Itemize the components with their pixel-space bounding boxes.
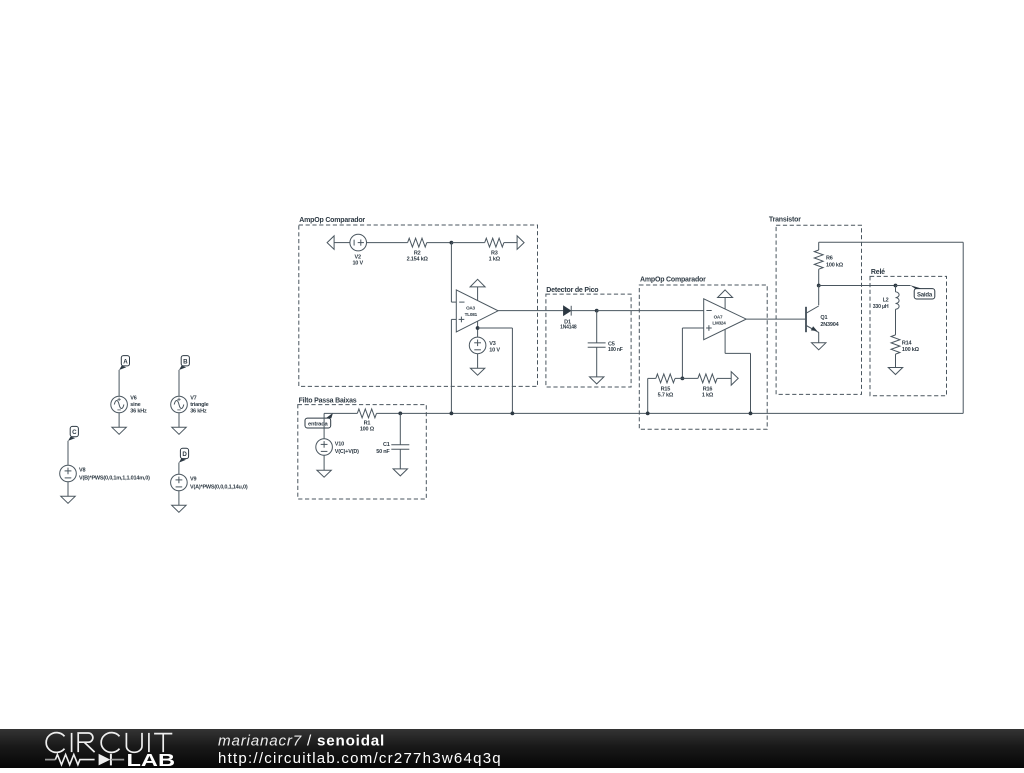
wire [477, 321, 479, 337]
wire right rail [962, 242, 964, 413]
svg-text:marianacr7 / senoidal: marianacr7 / senoidal [218, 733, 385, 750]
output flag (right arrow) [731, 372, 738, 386]
wire [477, 354, 479, 369]
node A flag [121, 356, 129, 366]
node junction [450, 412, 454, 416]
svg-text:1 kΩ: 1 kΩ [489, 257, 501, 263]
svg-text:sine: sine [130, 402, 140, 408]
wire [746, 318, 806, 320]
svg-text:100 nF: 100 nF [608, 347, 623, 353]
svg-text:R6: R6 [826, 255, 833, 261]
svg-text:V9: V9 [190, 477, 196, 483]
wire [178, 463, 180, 475]
wire [498, 310, 563, 312]
svg-text:10 V: 10 V [352, 261, 363, 267]
wire [895, 354, 897, 367]
node junction [681, 377, 685, 381]
svg-text:triangle: triangle [190, 402, 208, 408]
wire [725, 352, 750, 354]
capacitor C1 [391, 444, 409, 446]
node B flag [181, 356, 189, 366]
svg-text:V2: V2 [355, 254, 361, 260]
svg-text:R16: R16 [703, 386, 713, 392]
ground [393, 469, 407, 476]
net flag entrada [326, 413, 333, 419]
ground [317, 470, 331, 477]
voltage source V2 [350, 234, 367, 251]
node junction [398, 412, 402, 416]
ground [888, 368, 902, 375]
svg-text:OA7: OA7 [714, 314, 723, 319]
wire [717, 377, 731, 379]
svg-text:Saida: Saida [917, 292, 933, 298]
wire [896, 285, 911, 287]
node junction [595, 309, 599, 313]
power flag of OA3 [477, 287, 479, 301]
wire bottom rail [377, 412, 964, 414]
node junction [450, 241, 454, 245]
svg-text:100 kΩ: 100 kΩ [826, 262, 844, 268]
svg-text:R3: R3 [491, 250, 498, 256]
section box AmpOp Comparador [299, 225, 538, 386]
svg-text:V6: V6 [130, 395, 136, 401]
node junction [476, 326, 480, 330]
wire [118, 413, 120, 428]
svg-text:Filto Passa Baixas: Filto Passa Baixas [299, 397, 357, 404]
svg-text:V(B)*PWS(0,0,1m,1,1.014m,0): V(B)*PWS(0,0,1m,1,1.014m,0) [79, 476, 150, 482]
wire [571, 310, 597, 312]
voltage source V10 [316, 439, 333, 456]
wire [750, 353, 752, 413]
svg-text:TL081: TL081 [465, 312, 478, 317]
wire [682, 327, 703, 329]
wire [178, 370, 180, 396]
wire [178, 413, 180, 428]
wire [648, 377, 656, 379]
svg-text:V8: V8 [79, 468, 85, 474]
resistor R14 [891, 335, 900, 354]
node junction [749, 412, 753, 416]
node C flag [70, 426, 78, 436]
wire [675, 377, 698, 379]
svg-text:LAB: LAB [127, 750, 176, 768]
diode D1 [563, 306, 571, 316]
voltage source V8 [60, 465, 77, 482]
capacitor C5 [588, 342, 606, 344]
svg-text:100 kΩ: 100 kΩ [902, 347, 920, 353]
wire [451, 301, 456, 303]
svg-text:LM324: LM324 [712, 321, 726, 326]
wire [818, 286, 820, 306]
ground [590, 377, 604, 384]
svg-text:R2: R2 [414, 250, 421, 256]
svg-text:A: A [123, 358, 128, 365]
wire [118, 370, 120, 396]
voltage source V9 [171, 474, 188, 491]
wire [451, 242, 484, 244]
output flag (right arrow) [517, 236, 524, 250]
svg-text:V10: V10 [335, 442, 344, 448]
svg-text:D: D [182, 451, 187, 458]
wire [178, 491, 180, 506]
svg-text:AmpOp Comparador: AmpOp Comparador [299, 217, 365, 224]
svg-text:36 kHz: 36 kHz [190, 408, 207, 414]
wire [681, 328, 683, 378]
svg-text:5.7 kΩ: 5.7 kΩ [658, 393, 674, 399]
wire [323, 455, 325, 470]
wire [596, 311, 598, 343]
wire [450, 243, 452, 303]
svg-text:V(C)+V(D): V(C)+V(D) [335, 449, 359, 455]
svg-text:2.154 kΩ: 2.154 kΩ [407, 257, 429, 263]
op-amp OA3 [456, 290, 498, 332]
svg-text:2N3904: 2N3904 [820, 322, 839, 328]
wire top rail [819, 241, 964, 243]
wire [67, 441, 69, 466]
resistor R1 [357, 409, 376, 418]
node junction [894, 284, 898, 288]
wire [647, 378, 649, 413]
svg-text:R1: R1 [364, 421, 371, 427]
svg-text:V3: V3 [489, 341, 495, 347]
wire [323, 413, 325, 438]
section box AmpOp Comparador 2 [639, 285, 767, 429]
wire [67, 482, 69, 497]
node junction [646, 412, 650, 416]
svg-text:C: C [72, 429, 77, 436]
svg-text:V(A)*PWS(0,0,0,1,14u,0): V(A)*PWS(0,0,0,1,14u,0) [190, 485, 248, 491]
resistor R2 [408, 238, 427, 247]
svg-text:AmpOp Comparador: AmpOp Comparador [640, 277, 706, 284]
svg-text:R15: R15 [661, 386, 671, 392]
section box Detector de Pico [546, 294, 631, 387]
wire [450, 319, 452, 413]
wire [895, 309, 897, 335]
section box Rele [870, 276, 947, 395]
svg-text:L2: L2 [883, 298, 889, 304]
wire [511, 328, 513, 413]
svg-text:10 V: 10 V [489, 347, 500, 353]
CircuitLab logo [46, 733, 172, 753]
wire [399, 449, 401, 469]
wire [818, 242, 820, 250]
ground [61, 496, 75, 503]
svg-text:Transistor: Transistor [769, 217, 801, 224]
svg-text:330 µH: 330 µH [873, 304, 889, 310]
svg-text:entrada: entrada [308, 421, 329, 427]
inductor L2 [896, 292, 900, 309]
svg-text:50 nF: 50 nF [376, 449, 390, 455]
svg-text:1N4148: 1N4148 [560, 325, 577, 331]
wire bottom rail [324, 412, 357, 414]
voltage source V7 (triangle 36 kHz) [171, 396, 188, 413]
wire [451, 318, 456, 320]
wire [895, 286, 897, 292]
wire [504, 242, 517, 244]
node D flag [180, 448, 188, 458]
node junction [817, 284, 821, 288]
svg-text:Detector de Pico: Detector de Pico [546, 287, 598, 294]
net flag Saida [910, 285, 920, 290]
ground [112, 427, 126, 434]
svg-text:R14: R14 [902, 340, 913, 346]
ground [470, 368, 484, 375]
wire [334, 242, 350, 244]
transistor Q1 2N3904 [806, 306, 819, 313]
svg-text:V7: V7 [190, 395, 196, 401]
resistor R6 [814, 250, 823, 269]
svg-text:B: B [183, 358, 188, 365]
wire [818, 332, 820, 343]
voltage source V6 (sine 36 kHz) [111, 396, 128, 413]
svg-text:36 kHz: 36 kHz [130, 408, 147, 414]
svg-text:Relé: Relé [871, 269, 885, 276]
wire [818, 269, 820, 285]
ground [812, 343, 826, 350]
wire [724, 329, 726, 353]
svg-text:OA3: OA3 [466, 306, 475, 311]
wire [478, 327, 513, 329]
resistor R3 [485, 238, 504, 247]
input flag (left arrow) [327, 236, 334, 250]
ground [172, 505, 186, 512]
svg-text:C1: C1 [383, 442, 390, 448]
wire [819, 285, 896, 287]
wire [596, 347, 598, 377]
ground [172, 427, 186, 434]
wire [399, 413, 401, 444]
svg-text:Q1: Q1 [820, 315, 827, 321]
svg-text:1 kΩ: 1 kΩ [702, 393, 714, 399]
node junction [511, 412, 515, 416]
wire [367, 242, 408, 244]
section box Transistor [776, 225, 861, 394]
resistor R16 [698, 374, 717, 383]
wire [597, 310, 704, 312]
power flag of OA7 [724, 298, 726, 309]
resistor R15 [656, 374, 675, 383]
voltage source V3 [469, 337, 486, 354]
svg-text:100 Ω: 100 Ω [360, 427, 375, 433]
wire [427, 242, 452, 244]
op-amp OA7 [704, 299, 747, 340]
svg-text:http://circuitlab.com/cr277h3w: http://circuitlab.com/cr277h3w64q3q [218, 750, 502, 767]
section box Filto Passa Baixas [298, 405, 427, 499]
